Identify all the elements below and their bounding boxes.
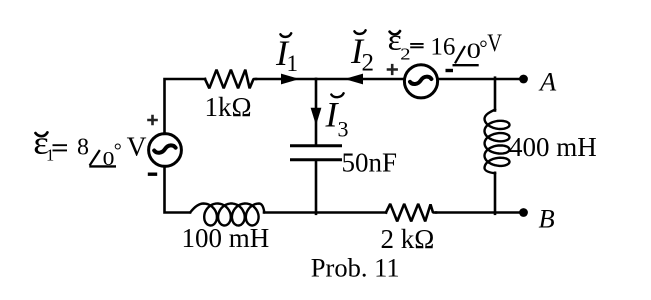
current I2 arrowhead bbox=[345, 74, 364, 85]
wire top (capacitor node to source E2, carries I2 arrow) bbox=[316, 78, 405, 81]
svg-text:Prob. 11: Prob. 11 bbox=[311, 252, 400, 282]
right vertical wire lower (inductor L2 to bottom wire junction) bbox=[494, 173, 497, 214]
svg-text:100 mH: 100 mH bbox=[182, 223, 270, 253]
svg-text:1: 1 bbox=[46, 146, 54, 165]
svg-text:A: A bbox=[538, 67, 557, 97]
node A terminal dot bbox=[519, 75, 528, 84]
middle vertical wire upper (top node to capacitor top plate, carries I3 arrow) bbox=[315, 79, 318, 144]
node A label bbox=[538, 67, 557, 97]
wire top-right (source E2 to node A) bbox=[438, 78, 520, 81]
source E2 minus sign bbox=[446, 69, 454, 72]
svg-text:16: 16 bbox=[430, 33, 455, 60]
source E2 label: phasor epsilon2 = 16 angle 0 deg V bbox=[388, 23, 503, 65]
source E1 sine wave bbox=[154, 145, 175, 152]
wire bottom middle (inductor L1 to capacitor node) bbox=[264, 211, 386, 214]
caption Prob. 11 bbox=[311, 252, 400, 282]
node B terminal dot bbox=[519, 208, 528, 217]
current phasor label I1 with breve and subscript 1 bbox=[275, 33, 298, 76]
svg-text:400 mH: 400 mH bbox=[509, 132, 597, 162]
node B label bbox=[539, 204, 555, 234]
wire top-left corner (horizontal run and upper-left vertical) bbox=[165, 79, 206, 134]
wire top middle (resistor R1 to capacitor node, carries I1 arrow) bbox=[256, 78, 316, 81]
source E1 circle bbox=[149, 134, 182, 167]
source E1 plus sign bbox=[147, 115, 158, 125]
resistor R2 2 kOhm zigzag bbox=[386, 204, 436, 222]
wire bottom-left corner (lower-left vertical and horizontal run to inductor L1) bbox=[165, 166, 191, 212]
svg-text:8: 8 bbox=[77, 135, 89, 161]
svg-text:°: ° bbox=[479, 35, 487, 59]
current I3 arrowhead bbox=[311, 108, 322, 125]
right vertical wire upper (top wire junction to inductor L2) bbox=[494, 78, 497, 111]
inductor L2 400 mH vertical coil bbox=[485, 110, 510, 174]
source E1 label: phasor epsilon1 = 8 angle 0 deg V bbox=[33, 124, 146, 169]
middle vertical wire lower (capacitor bottom plate to bottom wire) bbox=[315, 161, 318, 214]
label R1 value 1kOhm bbox=[205, 92, 252, 122]
capacitor C1 bottom plate bbox=[292, 158, 341, 161]
wire bottom-right (resistor R2 to node B) bbox=[436, 211, 520, 214]
inductor L1 100 mH coil bbox=[190, 204, 264, 226]
svg-text:2: 2 bbox=[362, 49, 375, 76]
label C1 value 50nF bbox=[342, 148, 398, 178]
label L2 value 400 mH bbox=[509, 132, 597, 162]
svg-text:2: 2 bbox=[400, 45, 410, 64]
resistor R1 1kOhm zigzag bbox=[205, 70, 256, 89]
svg-text:1kΩ: 1kΩ bbox=[205, 92, 252, 122]
svg-text:0: 0 bbox=[103, 148, 115, 170]
current phasor label I2 with breve and subscript 2 bbox=[350, 30, 374, 76]
label L1 value 100 mH bbox=[182, 223, 270, 253]
source E1 minus sign bbox=[148, 172, 157, 175]
svg-text:2 kΩ: 2 kΩ bbox=[381, 224, 435, 254]
source E2 circle bbox=[404, 65, 437, 98]
source E2 sine wave bbox=[410, 77, 431, 84]
svg-text:V: V bbox=[487, 28, 502, 57]
svg-text:1: 1 bbox=[287, 51, 299, 76]
current phasor label I3 with breve and subscript 3 bbox=[325, 93, 349, 141]
svg-text:V: V bbox=[127, 131, 147, 162]
svg-text:3: 3 bbox=[338, 117, 349, 142]
capacitor C1 top plate bbox=[292, 144, 341, 147]
label R2 value 2 kOhm bbox=[381, 224, 435, 254]
current I1 arrowhead bbox=[281, 74, 300, 85]
svg-text:50nF: 50nF bbox=[342, 148, 398, 178]
svg-text:B: B bbox=[539, 204, 555, 234]
source E2 plus sign bbox=[387, 64, 398, 75]
svg-text:°: ° bbox=[114, 140, 122, 162]
